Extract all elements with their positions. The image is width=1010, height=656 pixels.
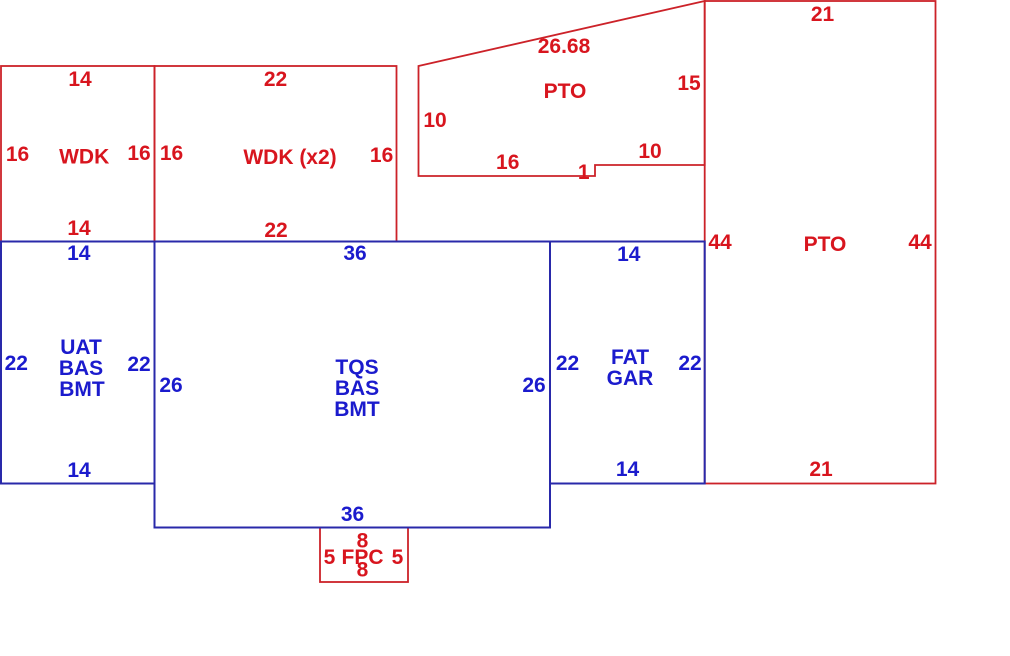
svg-text:8: 8 — [357, 559, 369, 582]
svg-text:10: 10 — [423, 109, 446, 132]
svg-text:14: 14 — [617, 243, 641, 266]
room FAT/GAR rectangle — [550, 242, 705, 484]
svg-text:14: 14 — [67, 242, 91, 265]
room UAT/BAS/BMT rectangle — [1, 242, 155, 484]
svg-text:15: 15 — [677, 72, 701, 95]
svg-text:36: 36 — [341, 503, 364, 526]
svg-text:16: 16 — [496, 151, 519, 174]
svg-text:16: 16 — [160, 142, 183, 165]
room WDK rectangle — [1, 66, 155, 242]
svg-text:22: 22 — [5, 352, 28, 375]
svg-text:BMT: BMT — [59, 378, 105, 401]
svg-text:16: 16 — [6, 143, 29, 166]
patio PTO rectangle (large) — [705, 1, 936, 484]
svg-text:22: 22 — [678, 352, 701, 375]
svg-text:BAS: BAS — [59, 357, 103, 380]
svg-text:PTO: PTO — [544, 80, 587, 103]
svg-text:22: 22 — [264, 68, 287, 91]
svg-text:WDK: WDK — [59, 146, 109, 169]
svg-text:16: 16 — [370, 144, 393, 167]
svg-text:26: 26 — [522, 374, 545, 397]
svg-text:WDK (x2): WDK (x2) — [243, 146, 336, 169]
svg-text:16: 16 — [127, 142, 150, 165]
svg-text:BAS: BAS — [335, 377, 379, 400]
svg-text:21: 21 — [809, 458, 833, 481]
svg-text:5: 5 — [324, 546, 336, 569]
svg-text:1: 1 — [578, 161, 590, 184]
svg-text:26: 26 — [159, 374, 182, 397]
svg-text:10: 10 — [638, 140, 661, 163]
svg-text:14: 14 — [68, 68, 92, 91]
svg-text:14: 14 — [67, 459, 91, 482]
svg-text:22: 22 — [264, 219, 287, 242]
svg-text:14: 14 — [67, 217, 91, 240]
svg-text:21: 21 — [811, 3, 835, 26]
svg-text:5: 5 — [392, 546, 404, 569]
svg-text:TQS: TQS — [335, 356, 378, 379]
room TQS/BAS/BMT rectangle — [155, 242, 551, 528]
svg-text:GAR: GAR — [607, 367, 654, 390]
room WDK (x2) rectangle — [155, 66, 397, 242]
patio PTO polygon (small, irregular) — [419, 1, 705, 176]
svg-text:36: 36 — [343, 242, 366, 265]
svg-text:22: 22 — [556, 352, 579, 375]
svg-text:44: 44 — [908, 231, 932, 254]
svg-text:26.68: 26.68 — [538, 35, 591, 58]
svg-text:44: 44 — [708, 231, 732, 254]
svg-text:UAT: UAT — [60, 336, 102, 359]
porch FPC rectangle — [320, 528, 408, 583]
svg-text:BMT: BMT — [334, 398, 380, 421]
svg-text:14: 14 — [616, 458, 640, 481]
svg-text:PTO: PTO — [804, 233, 847, 256]
svg-text:FAT: FAT — [611, 346, 649, 369]
svg-text:22: 22 — [127, 353, 150, 376]
